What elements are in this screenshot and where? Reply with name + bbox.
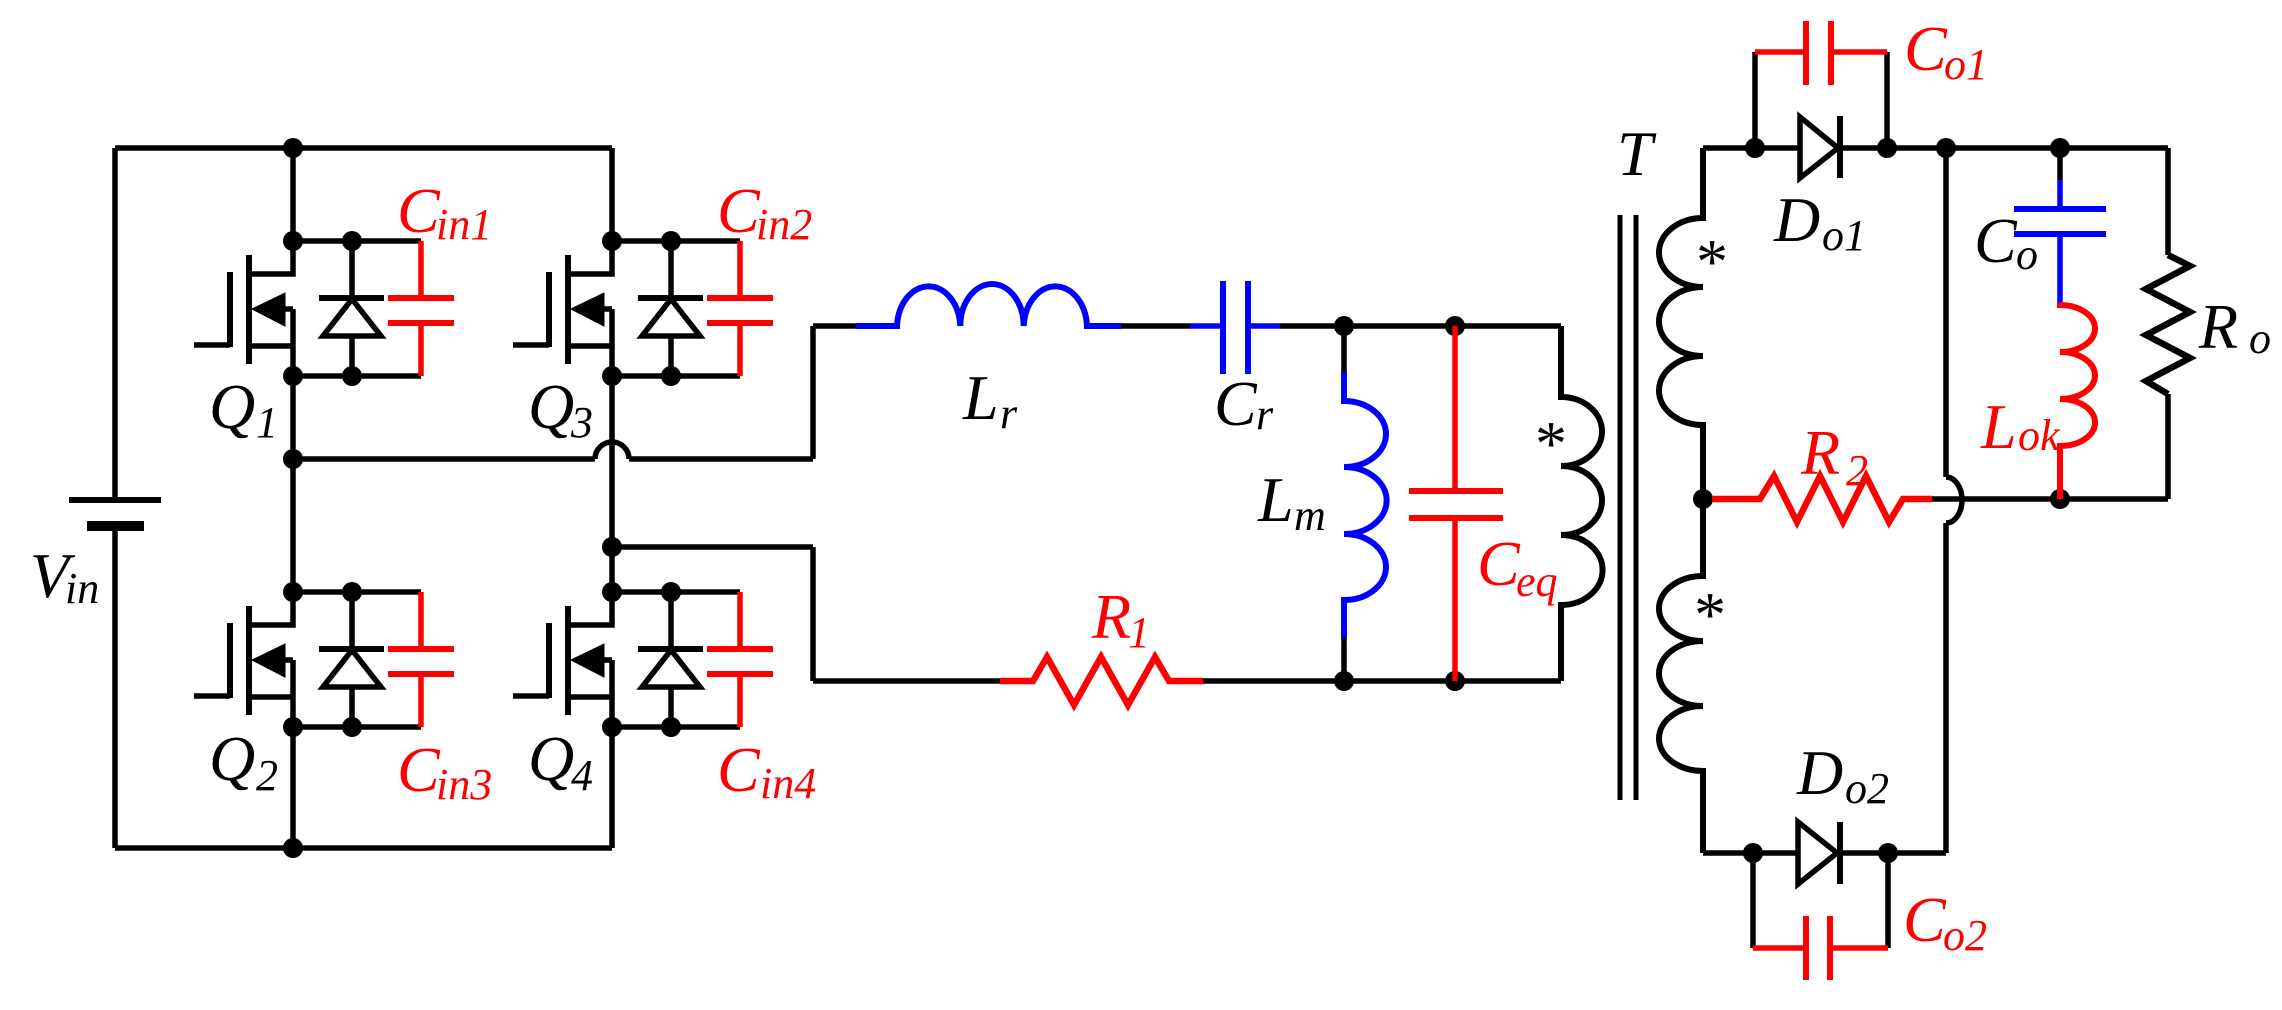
wire [293, 724, 421, 730]
wire [612, 724, 740, 730]
svg-text:2: 2 [256, 751, 278, 800]
node [283, 138, 303, 158]
svg-text:C: C [397, 734, 441, 805]
svg-text:in4: in4 [760, 759, 816, 808]
wire [2057, 148, 2063, 180]
svg-text:R: R [1800, 417, 1840, 488]
resistor R1 [1000, 657, 1203, 705]
svg-text:o1: o1 [1822, 211, 1866, 260]
svg-text:o: o [2016, 230, 2038, 279]
node A [283, 449, 303, 469]
diode body-Q1 [319, 241, 384, 376]
wire [2165, 394, 2171, 499]
svg-text:C: C [1974, 205, 2018, 276]
label Lr [962, 362, 1018, 438]
node [602, 582, 681, 737]
capacitor Cin3 [388, 592, 454, 727]
wire [290, 376, 296, 592]
node [602, 231, 681, 386]
label Cin4 [717, 734, 816, 808]
label R2 [1800, 417, 1868, 495]
svg-text:L: L [962, 362, 999, 433]
capacitor Co1 [1755, 21, 1887, 85]
wire [609, 376, 615, 592]
inductor Lm [1344, 372, 1387, 637]
label R1 [1091, 581, 1150, 657]
svg-text:*: * [1532, 408, 1564, 479]
svg-text:2: 2 [1846, 446, 1868, 495]
node [1334, 316, 1465, 336]
svg-text:C: C [1904, 13, 1948, 84]
wire [1885, 853, 1891, 948]
label Q2 [209, 723, 278, 800]
wire [293, 456, 595, 462]
transistor Q2 [194, 592, 293, 727]
svg-text:D: D [1773, 184, 1820, 255]
transistor Q1 [194, 241, 293, 376]
transistor Q4 [513, 592, 612, 727]
node [283, 231, 362, 386]
wire [1884, 52, 1890, 148]
node [2050, 138, 2070, 158]
wire [112, 526, 118, 848]
wire [1703, 850, 1946, 856]
svg-text:o: o [2249, 314, 2271, 363]
node [1936, 138, 1956, 158]
svg-text:r: r [1256, 390, 1274, 439]
svg-text:*: * [1691, 579, 1723, 650]
label Q4 [528, 723, 593, 800]
svg-text:in2: in2 [756, 200, 812, 249]
svg-text:o2: o2 [1845, 764, 1889, 813]
label Cin1 [397, 175, 492, 249]
svg-text:r: r [1000, 389, 1018, 438]
wire [1943, 523, 1949, 853]
wire [810, 326, 816, 459]
diode body-Q2 [319, 592, 384, 727]
inductor Lr [856, 284, 1121, 326]
transformer primary winding [1561, 326, 1603, 681]
wire [115, 845, 612, 851]
wire [609, 148, 615, 241]
svg-text:C: C [1903, 884, 1947, 955]
inductor Lok [2060, 303, 2095, 499]
wire [612, 589, 740, 595]
transformer core [1620, 215, 1636, 800]
wire [112, 148, 118, 500]
node [283, 582, 362, 737]
wire [1703, 145, 2168, 151]
label Co2 [1903, 884, 1987, 960]
label Do1 [1773, 184, 1866, 260]
svg-text:1: 1 [1128, 608, 1150, 657]
wire [612, 238, 740, 244]
svg-text:Q: Q [528, 723, 574, 794]
svg-text:C: C [1214, 368, 1258, 439]
svg-text:R: R [2198, 291, 2238, 362]
capacitor Cin4 [707, 592, 773, 727]
capacitor Cin2 [707, 241, 773, 376]
diode Do1 [1800, 116, 1840, 178]
svg-text:C: C [717, 734, 761, 805]
svg-text:T: T [1617, 118, 1657, 189]
svg-text:3: 3 [570, 398, 593, 447]
wire [1341, 637, 1347, 681]
wire [1750, 853, 1756, 948]
node [2050, 489, 2070, 509]
wire [293, 373, 421, 379]
label Ro [2198, 291, 2271, 363]
label Q3 [528, 371, 593, 447]
wire [612, 544, 813, 550]
node [1743, 843, 1898, 863]
resistor R2 [1712, 476, 1932, 522]
svg-text:eq: eq [1516, 557, 1558, 606]
diode body-Q3 [638, 241, 703, 376]
node B [602, 537, 622, 557]
diode body-Q4 [638, 592, 703, 727]
svg-text:C: C [397, 175, 441, 246]
node [1745, 138, 1897, 158]
wire hop [595, 442, 629, 459]
wire [1280, 323, 1561, 329]
capacitor Cin1 [388, 241, 454, 376]
wire [810, 547, 816, 681]
wire hop [1946, 477, 1962, 523]
wire [612, 373, 740, 379]
diode Do2 [1798, 822, 1840, 884]
svg-text:Q: Q [528, 371, 574, 442]
wire [813, 678, 1000, 684]
transformer secondary winding top [1659, 148, 1703, 499]
wire [813, 323, 856, 329]
svg-text:in1: in1 [436, 200, 492, 249]
label Co1 [1904, 13, 1988, 89]
wire [629, 456, 813, 462]
svg-text:o2: o2 [1943, 911, 1987, 960]
wire [609, 727, 615, 848]
wire [290, 727, 296, 848]
label Cr [1214, 368, 1274, 439]
polarity mark primary [1532, 408, 1564, 479]
polarity mark secondary top [1693, 226, 1725, 297]
svg-text:D: D [1796, 737, 1843, 808]
capacitor Co [2014, 180, 2106, 303]
wire [115, 145, 612, 151]
node [1693, 489, 1713, 509]
svg-text:L: L [1257, 464, 1294, 535]
wire [1341, 326, 1347, 372]
svg-text:R: R [1091, 581, 1131, 652]
label Co [1974, 205, 2038, 279]
label Q1 [209, 371, 278, 447]
wire [1943, 148, 1949, 477]
wire [1932, 496, 2168, 502]
label Cin2 [717, 175, 812, 249]
label Vin [30, 540, 99, 613]
node [283, 838, 303, 858]
wire [1121, 323, 1190, 329]
svg-text:C: C [1477, 528, 1521, 599]
svg-text:Q: Q [209, 723, 255, 794]
capacitor Co2 [1753, 916, 1888, 980]
wire [293, 589, 421, 595]
svg-text:m: m [1294, 491, 1326, 540]
wire [1752, 52, 1758, 148]
label Ceq [1477, 528, 1558, 606]
capacitor Cr [1190, 281, 1280, 374]
wire [293, 238, 421, 244]
battery Vin [69, 500, 161, 526]
svg-text:C: C [717, 175, 761, 246]
svg-text:Q: Q [209, 371, 255, 442]
label Cin3 [397, 734, 492, 809]
svg-text:L: L [1980, 391, 2017, 462]
transistor Q3 [513, 241, 612, 376]
label Lok [1980, 391, 2061, 462]
svg-text:4: 4 [571, 751, 593, 800]
capacitor Ceq [1409, 326, 1503, 681]
svg-text:o1: o1 [1944, 40, 1988, 89]
label T [1617, 118, 1657, 189]
node [1334, 671, 1465, 691]
resistor Ro [2146, 255, 2190, 394]
svg-text:in: in [65, 564, 99, 613]
svg-text:1: 1 [256, 398, 278, 447]
svg-text:ok: ok [2018, 411, 2061, 460]
svg-text:in3: in3 [436, 760, 492, 809]
label Do2 [1796, 737, 1889, 813]
wire [2165, 148, 2171, 255]
transformer secondary winding bottom [1659, 499, 1703, 853]
wire [290, 148, 296, 241]
svg-text:*: * [1693, 226, 1725, 297]
polarity mark secondary bottom [1691, 579, 1723, 650]
label Lm [1257, 464, 1326, 540]
wire [1203, 678, 1561, 684]
